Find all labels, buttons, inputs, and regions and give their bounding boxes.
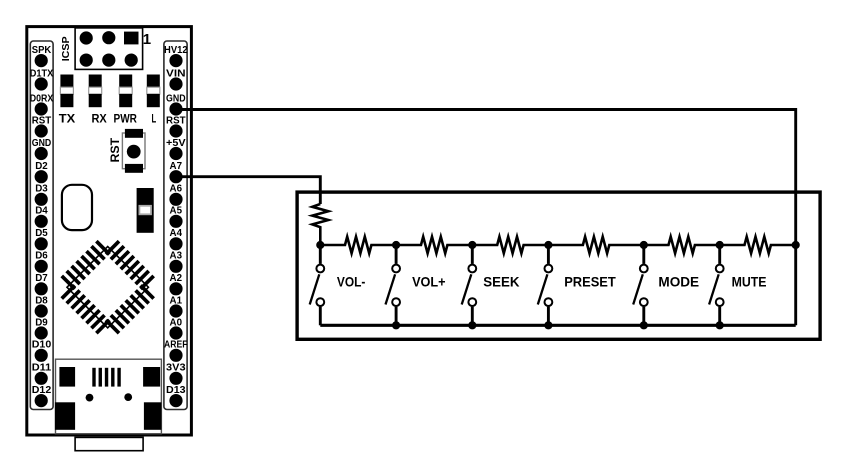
- svg-text:1: 1: [143, 31, 151, 48]
- right pin header strip: [164, 41, 187, 410]
- RST push button SW1: [122, 129, 145, 173]
- pin RST (right header): [166, 115, 186, 137]
- bus junction dot at x=548.4: [544, 321, 552, 329]
- switch SEEK (push button): [462, 245, 476, 325]
- svg-text:ICSP: ICSP: [61, 36, 72, 61]
- LED TX: [60, 75, 73, 108]
- pin D11 (left header): [32, 363, 52, 385]
- bus junction dot at x=719.7: [716, 321, 724, 329]
- resistor R5 (ladder): [548, 237, 643, 254]
- resistor R6 (ladder): [644, 237, 720, 254]
- bus junction dot at x=396.1: [392, 321, 400, 329]
- svg-text:RST: RST: [108, 137, 122, 162]
- crystal Y1 (oval pad): [62, 185, 92, 230]
- pin SPK (left header): [32, 45, 52, 67]
- ICSP pad pin6: [80, 54, 93, 67]
- resistor R7 (ladder): [720, 237, 796, 254]
- pin 3V3 (right header): [166, 363, 186, 385]
- ICSP pad pin5: [80, 31, 93, 44]
- LED L: [147, 75, 160, 108]
- ICSP pad pin4: [102, 54, 115, 67]
- slide switch SW2: [137, 188, 154, 233]
- pin HV12 (right header): [164, 45, 188, 67]
- ICSP pad pin3: [102, 31, 115, 44]
- resistor R3 (ladder): [396, 237, 472, 254]
- bus junction dot at x=643.8: [640, 321, 648, 329]
- USB plug tab: [75, 437, 143, 450]
- pin D13 (right header): [166, 385, 186, 407]
- wire GND pin to button-board right rail: [176, 110, 796, 326]
- pin A4 (right header): [169, 228, 182, 250]
- pin D6 (left header): [35, 251, 49, 273]
- resistor R2 (ladder): [320, 237, 396, 254]
- node N1 junction dot: [316, 241, 324, 249]
- bus junction dot at x=472.3: [468, 321, 476, 329]
- left pin header strip: [30, 41, 53, 410]
- pin A2 (right header): [169, 273, 182, 295]
- pin RST (left header): [32, 115, 52, 137]
- wire A7 pin to ladder input: [176, 177, 320, 204]
- switch PRESET (push button): [538, 245, 553, 325]
- switch MUTE (push button): [709, 245, 724, 325]
- pin GND (left header): [32, 138, 52, 160]
- node N2 junction dot: [392, 241, 400, 249]
- node N4 junction dot: [544, 241, 552, 249]
- pin D1TX (left header): [30, 68, 54, 90]
- svg-text:VOL-: VOL-: [337, 273, 366, 289]
- pin D4 (left header): [35, 206, 49, 228]
- pin D5 (left header): [35, 228, 49, 250]
- resistor R4 (ladder): [472, 237, 548, 254]
- node N7 junction dot: [792, 241, 800, 249]
- pin A7 (right header): [169, 161, 182, 183]
- pin A1 (right header): [169, 295, 182, 317]
- bottom bus wire (to GND rail): [320, 324, 795, 327]
- svg-text:VOL+: VOL+: [412, 273, 446, 289]
- svg-text:MUTE: MUTE: [732, 273, 767, 289]
- ICSP header outline: [75, 28, 143, 70]
- ICSP pad pin2: [125, 54, 138, 67]
- pin D8 (left header): [35, 295, 49, 317]
- node N3 junction dot: [468, 241, 476, 249]
- svg-text:SEEK: SEEK: [483, 273, 519, 289]
- svg-text:PWR: PWR: [114, 112, 138, 126]
- pin GND (right header): [166, 93, 186, 115]
- ICSP pad pin1 (square): [124, 32, 139, 45]
- pin AREF (right header): [164, 340, 188, 362]
- svg-text:RX: RX: [91, 112, 106, 126]
- node N6 junction dot: [716, 241, 724, 249]
- svg-text:TX: TX: [59, 112, 75, 126]
- pin A0 (right header): [169, 317, 182, 339]
- svg-text:L: L: [152, 112, 157, 126]
- pin D9 (left header): [35, 317, 49, 339]
- Arduino board outline: [27, 27, 192, 435]
- MCU U1 (QFP-32, rotated 45 deg): [50, 230, 165, 345]
- svg-text:MODE: MODE: [658, 273, 699, 289]
- pin D10 (left header): [32, 340, 52, 362]
- pin D12 (left header): [32, 385, 52, 407]
- pin D7 (left header): [35, 273, 49, 295]
- pin +5V (right header): [166, 138, 186, 160]
- pin A6 (right header): [169, 184, 182, 206]
- pin A3 (right header): [169, 251, 182, 273]
- node N5 junction dot: [640, 241, 648, 249]
- pin D0RX (left header): [30, 93, 54, 115]
- switch MODE (push button): [633, 245, 647, 325]
- svg-text:PRESET: PRESET: [564, 273, 616, 289]
- button board outline: [297, 192, 820, 339]
- pin A5 (right header): [169, 206, 182, 228]
- pin D3 (left header): [35, 184, 49, 206]
- pin D2 (left header): [35, 161, 49, 183]
- USB connector J1: [55, 359, 161, 434]
- pin VIN (right header): [166, 68, 186, 90]
- resistor R1 (series, vertical): [312, 204, 328, 245]
- switch VOL+ (push button): [386, 245, 401, 325]
- LED RX: [89, 75, 102, 108]
- switch VOL- (push button): [310, 245, 324, 325]
- LED PWR: [119, 75, 132, 108]
